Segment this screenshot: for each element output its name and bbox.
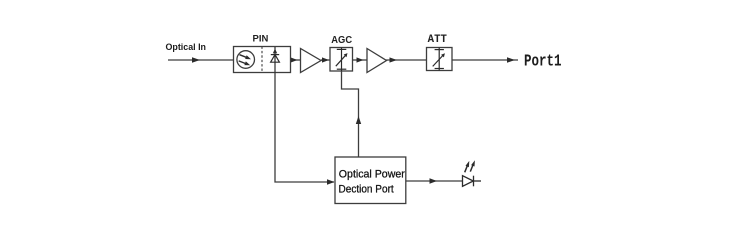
lens circle: [237, 51, 255, 69]
LED emission arrow 2: [470, 160, 475, 171]
arrowhead detection box to LED: [430, 178, 438, 183]
ATT diagonal arrowhead: [441, 53, 445, 57]
PIN module box: [234, 47, 291, 73]
amplifier A1: [301, 49, 322, 73]
wire A1 to AGC: [321, 59, 330, 61]
arrowhead into AGC: [322, 57, 329, 62]
Optical Power Dection Port box: [335, 157, 406, 204]
LED emission arrow 1: [465, 161, 470, 172]
arrowhead into A1: [291, 57, 298, 62]
AGC attenuator box: [330, 48, 353, 72]
arrowhead up on AGC feedback: [356, 116, 361, 124]
LED indicator diode: [463, 176, 482, 187]
arrowhead optical in: [192, 57, 200, 62]
wire detection box to LED: [406, 180, 463, 182]
svg-text:PIN: PIN: [253, 34, 269, 45]
light arrow 1 in lens: [240, 55, 252, 60]
ATT inner symbol: [433, 48, 444, 71]
wire A2 to ATT: [386, 59, 427, 61]
amplifier A2: [367, 49, 387, 73]
svg-text:Optical In: Optical In: [166, 42, 207, 52]
svg-text:ATT: ATT: [428, 34, 448, 46]
wire AGC feedback from detection box: [342, 71, 359, 157]
ATT attenuator box: [427, 48, 453, 71]
wire PIN to A1: [291, 59, 301, 61]
photodiode D1: [271, 47, 280, 73]
wire optical input: [168, 59, 233, 61]
AGC diagonal arrowhead: [344, 53, 348, 57]
light arrow 2 in lens: [239, 61, 251, 65]
svg-text:Optical Power: Optical Power: [339, 169, 405, 181]
arrowhead into A2: [357, 57, 364, 62]
svg-text:Port1: Port1: [524, 51, 562, 70]
arrowhead into detection box: [327, 179, 335, 184]
arrowhead after A2: [390, 57, 398, 62]
wire ATT to Port1: [452, 59, 518, 61]
AGC inner symbol: [336, 48, 347, 72]
wire PIN down to detection box: [275, 73, 334, 183]
svg-text:Dection Port: Dection Port: [339, 183, 395, 195]
svg-text:AGC: AGC: [331, 35, 352, 46]
arrowhead into Port1: [507, 57, 515, 62]
dashed divider in PIN box: [261, 47, 263, 73]
wire AGC to A2: [353, 59, 368, 61]
